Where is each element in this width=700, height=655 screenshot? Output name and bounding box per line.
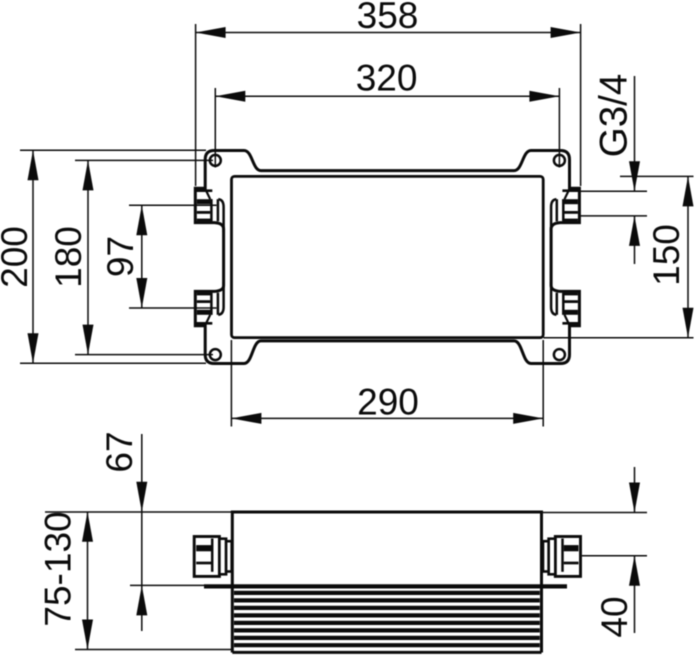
dimension 290 (inner width, bottom) [231, 340, 543, 427]
dimension G3/4 (thread size callout, right) [579, 76, 647, 264]
pipe boss G3/4 top-right (plan) [551, 191, 579, 232]
pipe boss G3/4 top-left (plan) [195, 191, 223, 232]
svg-text:358: 358 [357, 0, 419, 36]
svg-text:150: 150 [646, 224, 687, 286]
pipe boss G3/4 bottom-right (plan) [551, 282, 579, 323]
svg-text:180: 180 [48, 226, 89, 288]
side view: mounting / tile plate [204, 584, 567, 588]
side view: pipe connector left [194, 537, 232, 577]
dimension 320 (hole spacing, top) [215, 88, 559, 168]
plan view: outer silhouette of flush-mounted box with four corner fixing tabs and pipe bosses [195, 151, 579, 364]
svg-text:75-130: 75-130 [38, 511, 79, 626]
screw hole bottom-left [210, 349, 221, 360]
side view: wall hatch stripes [234, 593, 540, 645]
screw hole bottom-right [554, 349, 565, 360]
svg-text:320: 320 [356, 58, 418, 99]
svg-text:40: 40 [594, 596, 635, 637]
svg-text:G3/4: G3/4 [592, 74, 635, 157]
side view: pipe connector right [543, 537, 581, 577]
screw hole top-left [210, 155, 221, 166]
dimension 200 (tab height, left) [20, 150, 206, 363]
dimension 97 (boss spacing, left) [129, 205, 217, 308]
dimension 67 (box depth above plate, side view) [136, 434, 147, 631]
pipe boss G3/4 bottom-left (plan) [195, 282, 223, 323]
side view: hatch bottom edge [232, 651, 541, 654]
svg-text:290: 290 [357, 382, 419, 423]
side view: box body [232, 512, 541, 653]
svg-text:97: 97 [100, 236, 141, 277]
dimension 150 (inner height, right) [544, 176, 694, 337]
screw hole top-right [554, 155, 565, 166]
svg-text:67: 67 [99, 431, 140, 472]
dimension 358 (overall width, top) [196, 24, 581, 186]
dimension 75-130 (installation depth range, side view) [45, 512, 232, 650]
plan view: inner rectangle (290 x 150 body opening) [232, 176, 544, 337]
dimension 180 (hole spacing, left) [75, 160, 213, 354]
dimension 40 (connector offset, side view right) [541, 467, 647, 633]
svg-text:200: 200 [0, 226, 35, 288]
